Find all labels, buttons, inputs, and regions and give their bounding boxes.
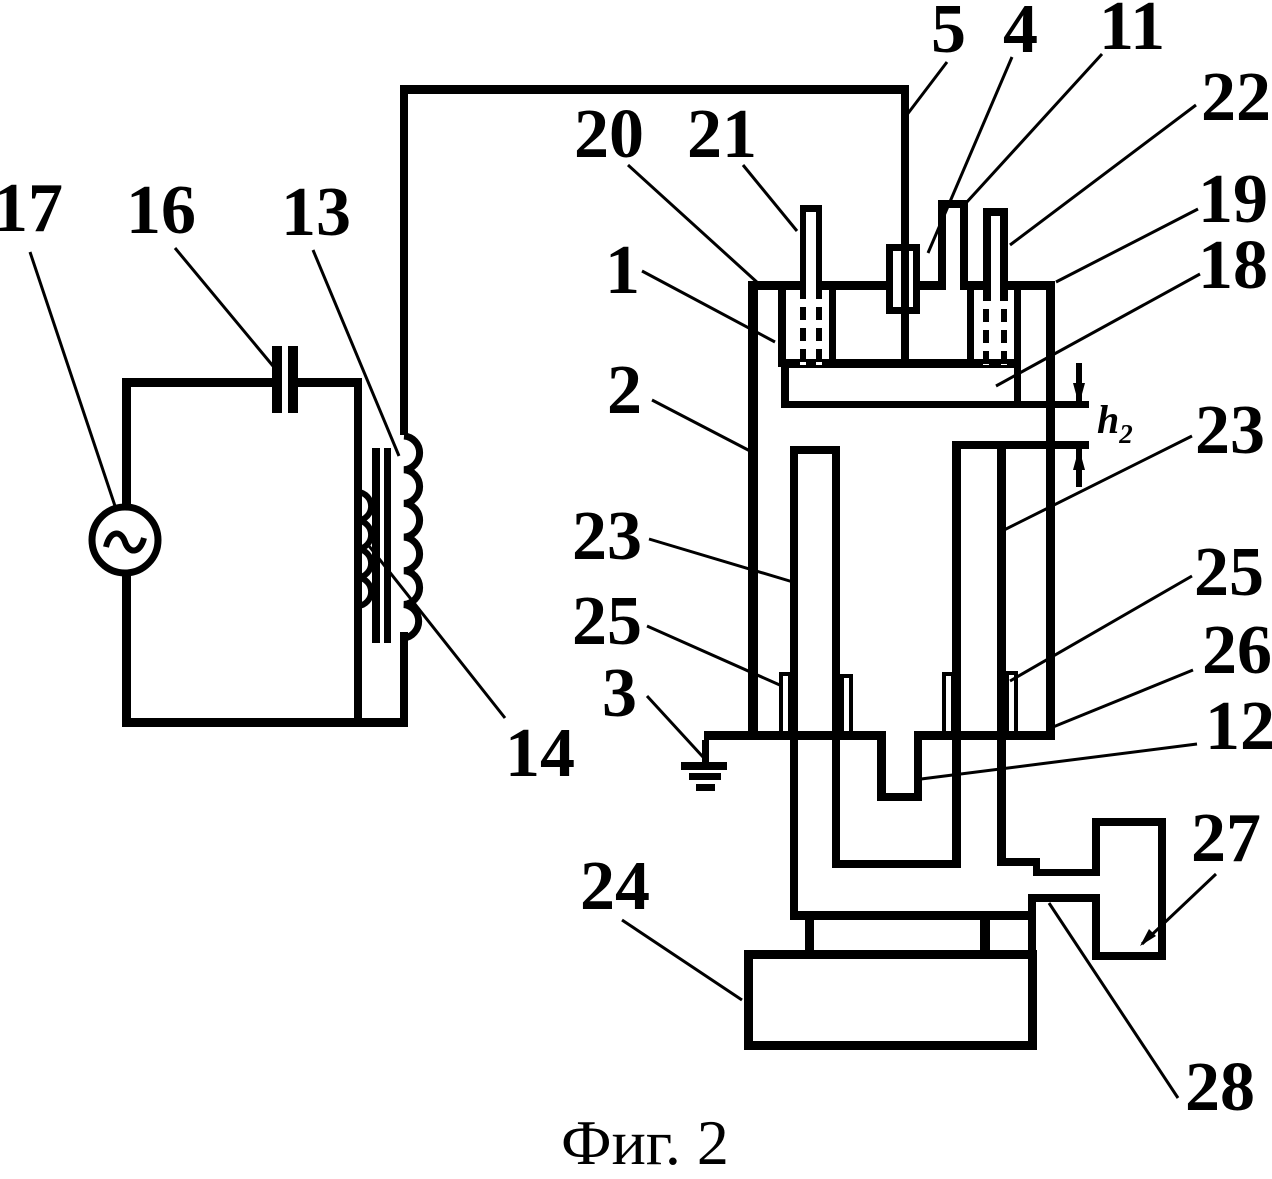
electrode23L cap: [790, 446, 840, 454]
tube21 left wall: [800, 205, 806, 300]
h2 dim arrow up: [1073, 448, 1085, 470]
electrode23R cap + h2 ref: [952, 441, 1089, 449]
loop top wire left segment: [122, 378, 273, 387]
well12 left wall: [877, 731, 886, 801]
right well left wall: [967, 286, 974, 367]
label 12: [1205, 692, 1272, 762]
electrode23L right wall: [832, 446, 840, 868]
label 5: [931, 0, 966, 65]
duct lower: [1030, 894, 1092, 902]
vessel right wall: [1046, 281, 1055, 740]
label 3: [602, 659, 637, 729]
AC source G17 circle: [92, 507, 158, 573]
rim seg b: [816, 281, 893, 290]
rim seg c: [913, 281, 946, 290]
leader 5: [906, 62, 947, 116]
duct upper b: [1033, 869, 1092, 876]
label 19: [1198, 165, 1268, 235]
box 27 left wall duct opening: [1092, 876, 1100, 894]
leader 21: [743, 165, 797, 231]
leader 25 left: [647, 626, 782, 686]
leader 27 arrowhead: [1140, 929, 1156, 946]
bottom plate left: [704, 731, 882, 740]
leader 14: [369, 546, 505, 718]
label 28: [1185, 1053, 1255, 1123]
loop bottom wire: [122, 718, 408, 727]
jacket outer bottom: [790, 911, 1036, 920]
label 23 left: [572, 502, 642, 572]
leader 3: [647, 696, 703, 757]
bottom plate right: [917, 731, 1055, 740]
duct step: [1033, 858, 1040, 876]
label 24: [580, 852, 650, 922]
left well left wall: [778, 286, 786, 367]
leader 23 right: [1004, 436, 1192, 530]
collar25 right-left: [942, 672, 955, 735]
leader 24: [622, 920, 742, 1000]
ground stub: [702, 740, 709, 764]
hv wire right vertical to electrode 4: [901, 85, 909, 364]
transformer secondary winding bumps: [404, 436, 420, 638]
label 21: [687, 100, 757, 170]
tube21 right wall dashed: [816, 299, 822, 365]
leader 19: [1056, 209, 1198, 282]
ground bar1: [681, 762, 727, 770]
label h2: [1097, 400, 1133, 448]
leader 27: [1142, 874, 1216, 944]
leader 4: [928, 57, 1012, 253]
loop left wire upper: [122, 378, 131, 505]
transformer core bar 2: [384, 448, 391, 643]
electrode23R right wall: [997, 441, 1006, 866]
leader 28: [1049, 903, 1178, 1098]
well12 bottom: [877, 793, 922, 801]
electrode23R left wall: [952, 441, 961, 868]
label 14: [505, 719, 575, 789]
sleeve4 left: [886, 244, 893, 314]
loop top wire right segment: [298, 378, 362, 387]
loop left wire lower: [122, 575, 131, 727]
AC source tilde: [106, 534, 144, 551]
duct upper a: [1001, 858, 1040, 866]
leader 12: [921, 744, 1197, 779]
collar25 right-right: [1005, 671, 1018, 735]
tube21 right wall: [816, 205, 822, 300]
sleeve4 top: [886, 244, 920, 251]
loop right wire: [354, 378, 362, 727]
tube11 left wall: [938, 200, 946, 290]
collar25 left-right: [840, 674, 853, 735]
tube11 right wall: [960, 200, 968, 290]
leader 13: [313, 250, 399, 456]
tube22 cap: [983, 208, 1008, 216]
leader 11: [966, 54, 1102, 203]
stub left to box24: [805, 920, 814, 953]
label 4: [1003, 0, 1038, 65]
label 17: [0, 174, 63, 244]
sleeve4 bottom: [886, 307, 920, 314]
leader 23 left: [649, 539, 793, 582]
leader 26: [1053, 670, 1193, 727]
label 2: [607, 356, 642, 426]
hv wire top horizontal: [400, 85, 909, 94]
tube11 cap: [938, 200, 968, 208]
tube22 left wall: [983, 208, 991, 301]
leader 16: [175, 248, 273, 366]
plate18 bottom line + h2 ref: [781, 401, 1089, 408]
transformer core bar 1: [372, 448, 380, 643]
stub right to box24: [980, 920, 990, 953]
label 23 right: [1195, 396, 1265, 466]
rim seg d: [960, 281, 991, 290]
inner right wall / plate right edge: [1014, 286, 1021, 407]
secondary bottom lead vertical: [400, 632, 408, 727]
tube22 right wall dashed: [1001, 301, 1007, 365]
label 20: [574, 100, 644, 170]
collar25 left-left: [779, 672, 792, 735]
leader 22: [1010, 105, 1196, 245]
capacitor C16 right plate: [288, 346, 298, 413]
sleeve4 right: [913, 244, 920, 314]
tube22 right wall: [1000, 208, 1008, 301]
well12 right wall: [914, 731, 922, 801]
leader 20: [628, 165, 759, 284]
electrode23L left wall: [790, 446, 798, 919]
label 25 left: [572, 587, 642, 657]
label 22: [1201, 63, 1271, 133]
leader 2: [652, 400, 752, 452]
rim seg e: [1000, 281, 1055, 290]
label 26: [1202, 616, 1272, 686]
plate18 top line: [781, 359, 1021, 368]
tube21 left wall dashed: [800, 299, 806, 365]
leader 1: [642, 271, 775, 342]
rim seg a: [748, 281, 806, 290]
ground bar3: [696, 784, 715, 791]
leader 18: [996, 274, 1200, 386]
plate18 left edge: [781, 359, 789, 408]
label 13: [281, 178, 351, 248]
label 1: [605, 236, 640, 306]
leader 17: [30, 252, 116, 509]
capacitor C16 left plate: [272, 346, 282, 413]
tube21 cap: [800, 205, 822, 212]
cooler box 24: [744, 950, 1037, 1050]
label 25 right: [1194, 538, 1264, 608]
h2 dim line upper: [1076, 363, 1082, 404]
tube22 left wall dashed: [983, 301, 989, 365]
caption Fig 2: [561, 1111, 729, 1175]
vessel left wall: [748, 281, 758, 740]
secondary top lead vertical: [400, 85, 408, 435]
duct downpipe / box24 right wall: [1028, 894, 1036, 1050]
left well right wall: [829, 286, 836, 367]
leader 25 right: [1010, 576, 1192, 681]
h2 dim line lower: [1076, 449, 1082, 487]
label 16: [126, 176, 196, 246]
ground bar2: [689, 773, 721, 780]
label 18: [1198, 231, 1268, 301]
jacket inner bottom: [832, 860, 961, 868]
label 11: [1099, 0, 1165, 62]
pump box 27: [1092, 818, 1166, 960]
transformer primary winding 13/14 bumps: [358, 492, 371, 606]
label 27: [1191, 804, 1261, 874]
h2 dim arrow down: [1073, 383, 1085, 405]
